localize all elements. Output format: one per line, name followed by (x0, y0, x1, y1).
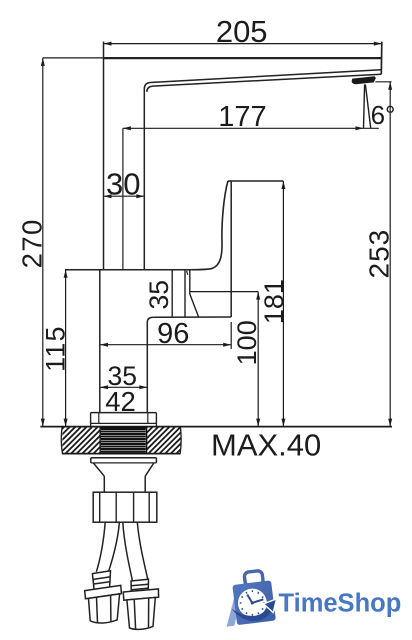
outlet slant (190, 294, 199, 317)
supply hoses (96, 522, 147, 580)
spout top back edge (104, 57, 382, 59)
dim 177 (123, 127, 379, 129)
body left edge (99, 270, 101, 413)
dim 96 (100, 344, 231, 346)
flange below counter (91, 458, 157, 492)
svg-text:270: 270 (16, 218, 47, 268)
top extension (43, 57, 104, 59)
svg-text:100: 100 (232, 320, 262, 365)
handle lever left curve (192, 181, 228, 270)
svg-text:253: 253 (363, 229, 394, 279)
dim 30 (104, 195, 145, 197)
svg-text:96: 96 (157, 318, 189, 350)
body shoulder line (153, 316, 231, 318)
dim 205 (104, 43, 382, 45)
body right edge (147, 317, 153, 412)
handle front edge (230, 181, 232, 317)
left hose nut (85, 571, 122, 623)
outlet face line (189, 270, 191, 294)
svg-text:MAX.40: MAX.40 (211, 427, 321, 462)
dim 181 (282, 181, 284, 427)
6 deg spray lines (364, 84, 371, 128)
cartridge housing (171, 270, 173, 317)
dim 115 (65, 270, 67, 427)
dim 35 lower (100, 386, 147, 388)
mounting nut (93, 492, 157, 522)
svg-text:30: 30 (106, 166, 140, 201)
spout front top edge (144, 70, 381, 89)
base plate (91, 413, 157, 427)
aerator (352, 76, 376, 84)
handle top edge (228, 180, 284, 182)
body top edge (65, 269, 192, 271)
dim 100 (190, 291, 258, 293)
spout tip edge (380, 42, 383, 75)
svg-text:181: 181 (259, 279, 289, 324)
svg-text:35: 35 (144, 280, 174, 309)
countertop section (40, 426, 392, 428)
svg-text:177: 177 (218, 101, 266, 133)
TimeShop logo (227, 569, 402, 626)
threaded shank (100, 427, 146, 453)
arrowheads (104, 42, 112, 46)
riser left edge (103, 42, 105, 270)
svg-text:205: 205 (216, 14, 268, 49)
svg-text:42: 42 (105, 386, 136, 417)
spout bottom edge (147, 74, 381, 92)
riser right edge (143, 89, 145, 270)
dim 270 (42, 58, 44, 427)
dim 253 (375, 81, 391, 83)
svg-text:115: 115 (40, 325, 70, 372)
right hose nut (123, 579, 158, 629)
svg-text:6°: 6° (371, 100, 396, 130)
svg-text:TimeShop: TimeShop (279, 590, 402, 618)
